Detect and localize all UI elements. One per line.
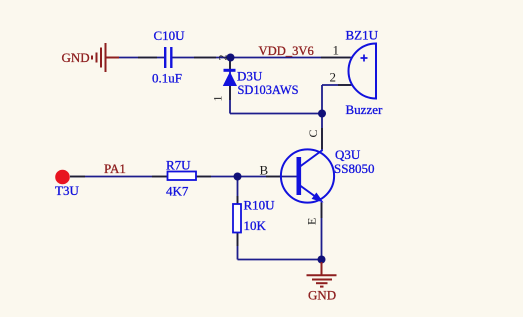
svg-text:C10U: C10U <box>154 28 186 43</box>
svg-text:10K: 10K <box>244 218 267 233</box>
svg-text:0.1uF: 0.1uF <box>152 71 182 86</box>
svg-text:PA1: PA1 <box>104 161 126 176</box>
svg-text:4K7: 4K7 <box>166 183 189 198</box>
svg-text:2: 2 <box>216 55 230 61</box>
svg-text:GND: GND <box>62 50 90 65</box>
svg-text:GND: GND <box>308 288 336 303</box>
svg-text:BZ1U: BZ1U <box>346 28 379 43</box>
svg-text:VDD_3V6: VDD_3V6 <box>259 44 314 58</box>
svg-text:R7U: R7U <box>166 158 191 173</box>
svg-text:B: B <box>260 163 269 178</box>
svg-text:1: 1 <box>333 43 340 58</box>
svg-text:SS8050: SS8050 <box>334 161 374 176</box>
svg-text:1: 1 <box>211 96 225 102</box>
svg-text:Buzzer: Buzzer <box>346 102 383 117</box>
svg-text:D3U: D3U <box>237 69 263 84</box>
svg-text:SD103AWS: SD103AWS <box>238 83 299 97</box>
svg-text:2: 2 <box>330 70 337 85</box>
svg-text:T3U: T3U <box>55 183 79 198</box>
svg-text:R10U: R10U <box>244 198 276 213</box>
svg-text:Q3U: Q3U <box>335 147 361 162</box>
svg-text:E: E <box>305 218 319 225</box>
svg-text:C: C <box>306 129 320 137</box>
